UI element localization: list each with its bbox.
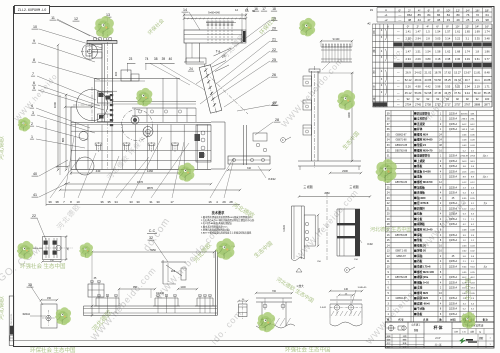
svg-text:8-Φ22: 8-Φ22 [268, 177, 276, 181]
svg-text:连接板: 连接板 [416, 191, 425, 195]
svg-text:24: 24 [189, 67, 193, 71]
svg-text:64: 64 [486, 13, 490, 17]
svg-text:41: 41 [33, 193, 37, 197]
svg-text:1.57: 1.57 [445, 30, 451, 34]
svg-text:38: 38 [437, 18, 441, 22]
svg-text:Q235-A: Q235-A [449, 176, 458, 179]
svg-text:33: 33 [129, 200, 133, 204]
svg-text:立柱焊合: 立柱焊合 [417, 117, 428, 121]
svg-text:400: 400 [114, 71, 118, 76]
svg-text:销轴: 销轴 [417, 254, 423, 258]
svg-text:25: 25 [272, 58, 276, 62]
svg-text:1.62: 1.62 [445, 49, 451, 53]
svg-text:Q235-A: Q235-A [449, 155, 458, 158]
svg-text:A: A [385, 8, 387, 12]
svg-text:98: 98 [486, 18, 490, 22]
svg-text:12°: 12° [465, 25, 469, 29]
svg-text:2745: 2745 [415, 102, 421, 106]
svg-text:Q235-A: Q235-A [449, 281, 458, 284]
svg-text:Q235-A: Q235-A [449, 123, 458, 126]
svg-text:55.45: 55.45 [484, 91, 491, 95]
svg-text:92: 92 [416, 97, 419, 101]
svg-text:河北德欧: 河北德欧 [0, 296, 5, 320]
svg-text:3.35: 3.35 [475, 36, 481, 40]
svg-text:三 视图: 三 视图 [349, 185, 358, 189]
svg-text:垫板: 垫板 [417, 238, 423, 242]
svg-text:—: — [397, 31, 400, 34]
svg-text:84: 84 [447, 13, 451, 17]
svg-text:Q235-A: Q235-A [449, 170, 458, 173]
svg-text:Q235-A: Q235-A [449, 192, 458, 195]
svg-text:3.38: 3.38 [445, 57, 451, 61]
svg-text:Q235-A: Q235-A [449, 218, 458, 221]
svg-text:24.1: 24.1 [475, 78, 481, 82]
svg-text:起: 起 [373, 70, 376, 74]
svg-text:3.77: 3.77 [484, 57, 490, 61]
svg-text:2.94: 2.94 [465, 84, 471, 88]
svg-text:ZLL2.6XP90M.LO: ZLL2.6XP90M.LO [18, 9, 47, 13]
svg-text:1200: 1200 [180, 286, 186, 289]
svg-text:GB5780-86: GB5780-86 [395, 181, 408, 184]
svg-text:56.13: 56.13 [474, 91, 481, 95]
svg-text:33: 33 [447, 18, 451, 22]
svg-text:1: 1 [31, 135, 33, 139]
svg-text:43.75: 43.75 [444, 91, 451, 95]
svg-text:Q235-A: Q235-A [449, 260, 458, 263]
svg-text:—: — [397, 92, 400, 95]
svg-text:16°: 16° [485, 25, 489, 29]
svg-text:23: 23 [129, 57, 133, 61]
svg-text:29: 29 [456, 18, 460, 22]
svg-text:24.62: 24.62 [415, 70, 422, 74]
svg-text:38: 38 [55, 200, 59, 204]
svg-text:3.49: 3.49 [465, 57, 471, 61]
svg-text:Q235-A: Q235-A [449, 239, 458, 242]
svg-text:27: 27 [273, 101, 277, 105]
svg-text:3.52: 3.52 [455, 84, 461, 88]
svg-text:—: — [397, 37, 400, 40]
svg-text:35.25: 35.25 [444, 78, 451, 82]
svg-text:GB93-87: GB93-87 [396, 255, 406, 258]
svg-text:1.74: 1.74 [465, 49, 471, 53]
svg-text:2757: 2757 [454, 102, 460, 106]
svg-text:22: 22 [272, 48, 276, 52]
svg-text:2.19: 2.19 [475, 84, 481, 88]
svg-text:3-M8×35: 3-M8×35 [358, 286, 367, 289]
svg-text:4: 4 [31, 104, 33, 108]
svg-text:92: 92 [446, 97, 449, 101]
svg-text:—: — [398, 18, 401, 22]
svg-text:39: 39 [162, 57, 166, 61]
svg-text:2060: 2060 [324, 192, 330, 195]
svg-text:30.7: 30.7 [465, 78, 471, 82]
svg-text:14: 14 [183, 8, 187, 12]
svg-text:16: 16 [254, 7, 258, 11]
svg-text:螺母 M20: 螺母 M20 [417, 291, 429, 295]
svg-text:螺栓 M24×80: 螺栓 M24×80 [417, 138, 433, 142]
svg-text:1460: 1460 [147, 169, 154, 173]
svg-text:2.09: 2.09 [415, 57, 421, 61]
svg-text:斜支撑焊合: 斜支撑焊合 [416, 111, 430, 115]
svg-text:升: 升 [373, 85, 376, 89]
svg-text:40: 40 [33, 172, 37, 176]
svg-text:3: 3 [32, 111, 34, 115]
svg-text:2°: 2° [417, 25, 420, 29]
svg-text:Q235-A: Q235-A [449, 128, 458, 131]
svg-text:8°: 8° [437, 8, 440, 12]
svg-text:1.71: 1.71 [484, 84, 490, 88]
svg-text:6°: 6° [428, 8, 431, 12]
svg-text:56.84: 56.84 [415, 91, 422, 95]
svg-text:支座: 支座 [416, 286, 423, 290]
svg-text:25: 25 [466, 18, 470, 22]
svg-text:GB862-87: GB862-87 [396, 297, 408, 300]
svg-text:拉板: 拉板 [417, 212, 423, 216]
svg-text:236.: 236. [470, 119, 475, 121]
svg-text:16°: 16° [475, 8, 479, 12]
svg-text:2: 2 [31, 122, 33, 126]
svg-text:ZL1.2.07.01: ZL1.2.07.01 [11, 313, 13, 325]
svg-text:21: 21 [476, 18, 480, 22]
svg-text:4: 4 [246, 7, 248, 11]
svg-text:52.98: 52.98 [424, 91, 431, 95]
svg-text:筋板: 筋板 [416, 164, 423, 168]
svg-text:2764: 2764 [470, 156, 476, 158]
svg-text:85: 85 [418, 13, 422, 17]
svg-text:Q235-A: Q235-A [449, 213, 458, 216]
svg-text:12: 12 [235, 8, 238, 12]
svg-text:11: 11 [51, 16, 55, 20]
svg-text:轴 Φ60: 轴 Φ60 [417, 196, 426, 200]
svg-text:1.58: 1.58 [435, 49, 441, 53]
svg-text:43.86: 43.86 [424, 78, 431, 82]
svg-text:—: — [397, 71, 400, 74]
svg-text:1.54: 1.54 [435, 30, 441, 34]
svg-text:28: 28 [229, 200, 233, 204]
svg-text:1.86: 1.86 [484, 49, 490, 53]
svg-text:钢板 δ=10: 钢板 δ=10 [417, 280, 429, 284]
svg-text:6°: 6° [436, 25, 439, 29]
svg-text:3.22: 3.22 [455, 36, 461, 40]
svg-text:7: 7 [32, 72, 34, 76]
svg-text:21: 21 [272, 38, 276, 42]
svg-text:Q235-A: Q235-A [449, 287, 458, 290]
svg-text:2.50: 2.50 [405, 36, 411, 40]
svg-text:5950: 5950 [150, 248, 156, 252]
svg-text:1.8: 1.8 [475, 49, 479, 53]
svg-text:1.5: 1.5 [426, 30, 430, 34]
svg-text:26: 26 [272, 73, 276, 77]
svg-text:3.36: 3.36 [455, 57, 461, 61]
svg-text:140: 140 [344, 288, 349, 291]
svg-text:1.41: 1.41 [405, 30, 411, 34]
svg-text:三 视图: 三 视图 [303, 185, 312, 189]
svg-text:92: 92 [407, 97, 410, 101]
svg-text:3.89: 3.89 [425, 57, 431, 61]
svg-text:—: — [397, 50, 400, 53]
svg-text:0°: 0° [398, 8, 401, 12]
svg-text:0°: 0° [407, 25, 410, 29]
svg-text:349.81: 349.81 [461, 113, 468, 115]
svg-text:Q235-A: Q235-A [449, 165, 458, 168]
svg-text:38: 38 [154, 57, 158, 61]
svg-text:8-Φ2: 8-Φ2 [367, 243, 373, 246]
svg-text:100: 100 [485, 97, 490, 101]
svg-text:17: 17 [170, 200, 174, 204]
svg-text:河北德欧: 河北德欧 [0, 136, 5, 160]
svg-text:5: 5 [33, 86, 35, 90]
svg-text:肋板: 肋板 [417, 312, 423, 316]
svg-text:盖板: 盖板 [417, 175, 423, 179]
svg-text:8°: 8° [446, 25, 449, 29]
svg-text:Q235-A: Q235-A [449, 160, 458, 163]
svg-text:螺栓 M12×40: 螺栓 M12×40 [417, 228, 433, 232]
svg-text:38: 38 [408, 18, 412, 22]
svg-text:2.8: 2.8 [426, 36, 430, 40]
svg-text:Q235-A: Q235-A [449, 313, 458, 316]
svg-text:螺母 M24: 螺母 M24 [417, 132, 429, 136]
svg-text:Q235-A: Q235-A [449, 202, 458, 205]
svg-text:1.61: 1.61 [455, 30, 461, 34]
svg-text:1.74: 1.74 [484, 30, 490, 34]
svg-text:34: 34 [114, 200, 118, 204]
svg-text:3.1: 3.1 [465, 36, 469, 40]
svg-text:10-Φ16: 10-Φ16 [156, 292, 165, 295]
svg-text:GB5015-88: GB5015-88 [395, 144, 408, 147]
svg-text:4.42: 4.42 [425, 84, 431, 88]
svg-text:10: 10 [33, 25, 37, 29]
svg-text:92: 92 [476, 97, 479, 101]
svg-text:40: 40 [169, 57, 173, 61]
svg-text:35: 35 [107, 200, 111, 204]
svg-text:螺栓 M20×70: 螺栓 M20×70 [417, 148, 433, 152]
svg-text:76: 76 [466, 13, 470, 17]
svg-text:环强社会 生态中国: 环强社会 生态中国 [20, 262, 66, 270]
svg-text:圆钢 Φ20: 圆钢 Φ20 [417, 296, 428, 300]
svg-text:142.: 142. [470, 129, 475, 131]
svg-text:880: 880 [61, 137, 65, 142]
svg-text:幅: 幅 [373, 49, 376, 53]
svg-text:Q235-A: Q235-A [449, 223, 458, 226]
svg-text:39: 39 [48, 200, 52, 204]
svg-text:92: 92 [456, 97, 459, 101]
svg-text:1970: 1970 [137, 180, 144, 184]
svg-text:17.62: 17.62 [444, 70, 451, 74]
svg-text:13.67: 13.67 [464, 70, 471, 74]
svg-text:重: 重 [373, 97, 376, 101]
svg-text:3.61: 3.61 [475, 57, 481, 61]
svg-text:Q235-A: Q235-A [449, 112, 458, 115]
svg-text:29: 29 [222, 200, 226, 204]
svg-text:48.04: 48.04 [415, 78, 422, 82]
svg-text:1.47: 1.47 [415, 30, 421, 34]
svg-text:Q235-A: Q235-A [449, 276, 458, 279]
svg-text:9×60=540: 9×60=540 [208, 11, 220, 15]
svg-text:3.55: 3.55 [445, 84, 451, 88]
svg-text:螺栓 M24×100: 螺栓 M24×100 [417, 270, 434, 274]
svg-text:12: 12 [74, 17, 78, 21]
svg-text:GB862-87: GB862-87 [396, 133, 408, 136]
svg-text:8.48: 8.48 [484, 70, 490, 74]
svg-text:84: 84 [427, 13, 431, 17]
svg-text:50.56: 50.56 [434, 78, 441, 82]
svg-text:螺栓 M16×50: 螺栓 M16×50 [417, 180, 433, 184]
svg-text:92: 92 [426, 97, 429, 101]
svg-text:4.98: 4.98 [415, 84, 421, 88]
svg-text:92: 92 [436, 97, 439, 101]
svg-text:底板 B=600: 底板 B=600 [416, 169, 431, 173]
svg-text:11.81: 11.81 [474, 70, 481, 74]
svg-text:加劲板: 加劲板 [416, 185, 425, 189]
svg-text:#2: #2 [367, 22, 371, 26]
svg-text:d12: d12 [171, 269, 176, 273]
svg-text:21.02: 21.02 [424, 70, 431, 74]
svg-text:440: 440 [96, 169, 101, 173]
svg-text:GB5783-88: GB5783-88 [395, 234, 408, 237]
svg-text:1.69: 1.69 [475, 30, 481, 34]
svg-text:2727: 2727 [435, 102, 441, 106]
svg-text:862: 862 [407, 13, 412, 17]
svg-text:3.05: 3.05 [435, 36, 441, 40]
svg-text:Q235-A: Q235-A [449, 265, 458, 268]
svg-text:15.27: 15.27 [454, 70, 461, 74]
svg-text:2.94: 2.94 [405, 57, 411, 61]
svg-text:30: 30 [156, 200, 160, 204]
svg-text:150: 150 [47, 297, 52, 300]
svg-text:142.3: 142.3 [462, 129, 468, 131]
svg-text:52.12: 52.12 [405, 78, 412, 82]
svg-text:12°: 12° [456, 8, 460, 12]
svg-text:2888: 2888 [474, 102, 480, 106]
svg-text:310: 310 [247, 167, 252, 170]
svg-text:kg: kg [479, 331, 481, 333]
svg-text:950: 950 [133, 286, 138, 289]
svg-text:2877: 2877 [484, 102, 490, 106]
svg-text:2°: 2° [408, 8, 411, 12]
svg-text:6: 6 [33, 81, 35, 85]
svg-text:18.78: 18.78 [434, 70, 441, 74]
svg-text:37.51: 37.51 [454, 91, 461, 95]
svg-text:4-Φ22: 4-Φ22 [283, 224, 286, 231]
svg-text:1.51: 1.51 [415, 49, 421, 53]
svg-text:4°: 4° [426, 25, 429, 29]
svg-text:—: — [397, 103, 400, 106]
svg-text:8: 8 [33, 58, 35, 62]
svg-text:2738: 2738 [425, 102, 431, 106]
svg-text:横隔板: 横隔板 [416, 222, 425, 226]
svg-text:Q235-A: Q235-A [449, 302, 458, 305]
svg-text:垫圈 24: 垫圈 24 [417, 143, 426, 147]
svg-text:垫圈 20: 垫圈 20 [417, 243, 426, 247]
svg-text:32: 32 [149, 236, 153, 240]
svg-text:3.18: 3.18 [435, 57, 441, 61]
svg-text:立板: 立板 [417, 217, 423, 221]
svg-text:10°: 10° [446, 8, 450, 12]
svg-text:2-Φ42: 2-Φ42 [320, 306, 327, 309]
svg-text:3870: 3870 [147, 186, 154, 190]
svg-text:套 Φ76×8: 套 Φ76×8 [417, 201, 429, 205]
svg-text:1.54: 1.54 [425, 49, 431, 53]
svg-text:1.68: 1.68 [455, 49, 461, 53]
svg-text:—: — [397, 58, 400, 61]
svg-text:2.94: 2.94 [415, 36, 421, 40]
svg-text:Φ20A2: Φ20A2 [23, 313, 31, 316]
svg-text:—: — [397, 79, 400, 82]
svg-text:Q235-A: Q235-A [449, 207, 458, 210]
svg-text:3.98: 3.98 [435, 84, 441, 88]
svg-text:3.14: 3.14 [445, 36, 451, 40]
svg-text:2764.87: 2764.87 [460, 156, 469, 158]
svg-text:节点板: 节点板 [417, 307, 425, 311]
svg-text:92: 92 [466, 97, 469, 101]
svg-text:31: 31 [149, 200, 153, 204]
svg-text:GB97.1-85: GB97.1-85 [395, 250, 407, 253]
svg-text:2767: 2767 [464, 102, 470, 106]
svg-text:10°: 10° [455, 25, 459, 29]
svg-text:GB5782-88: GB5782-88 [395, 276, 408, 279]
svg-text:20: 20 [272, 27, 276, 31]
svg-text:GB5782-88: GB5782-88 [395, 149, 408, 152]
svg-text:基础梁焊合: 基础梁焊合 [416, 154, 430, 158]
svg-text:变: 变 [373, 30, 376, 34]
svg-text:工艺: 工艺 [403, 346, 407, 349]
svg-text:9×100: 9×100 [333, 38, 340, 41]
svg-text:—: — [398, 13, 401, 17]
svg-text:杯体: 杯体 [416, 127, 423, 131]
svg-text:C: C [282, 138, 284, 142]
svg-text:—: — [397, 98, 400, 101]
svg-text:1000: 1000 [53, 101, 57, 108]
svg-text:47: 47 [427, 18, 431, 22]
svg-text:9.44: 9.44 [465, 91, 471, 95]
svg-text:30: 30 [136, 200, 140, 204]
svg-text:28: 28 [275, 118, 279, 122]
svg-text:74: 74 [145, 57, 149, 61]
svg-text:—: — [397, 85, 400, 88]
svg-text:18°: 18° [485, 8, 489, 12]
svg-text:连接梁: 连接梁 [416, 122, 425, 126]
svg-text:2754: 2754 [405, 102, 411, 106]
svg-text:Q235-A: Q235-A [449, 308, 458, 311]
svg-text:1.47: 1.47 [405, 49, 411, 53]
svg-text:9: 9 [33, 39, 35, 43]
svg-text:2=4°: 2=4° [435, 336, 440, 340]
svg-text:14°: 14° [466, 8, 470, 12]
svg-text:4°: 4° [418, 8, 421, 12]
svg-text:1 放大: 1 放大 [296, 284, 304, 288]
svg-text:1:25: 1:25 [462, 331, 466, 333]
svg-text:17: 17 [262, 7, 266, 11]
svg-text:挡板: 挡板 [416, 259, 423, 263]
svg-text:33.72: 33.72 [454, 78, 461, 82]
svg-text:1.65: 1.65 [465, 30, 471, 34]
svg-text:349.: 349. [470, 113, 475, 115]
svg-text:5.26: 5.26 [405, 84, 411, 88]
svg-text:弹垫 20: 弹垫 20 [417, 249, 426, 253]
svg-text:3400: 3400 [347, 112, 351, 118]
svg-text:36: 36 [100, 200, 104, 204]
svg-text:72: 72 [476, 13, 480, 17]
svg-text:环保社会 生态中国: 环保社会 生态中国 [30, 346, 76, 353]
svg-text:2717: 2717 [445, 102, 451, 106]
svg-text:撑板: 撑板 [416, 233, 423, 237]
svg-text:C-C: C-C [149, 229, 156, 233]
svg-text:Q235-A: Q235-A [449, 234, 458, 237]
svg-text:19.88: 19.88 [484, 78, 491, 82]
svg-text:700: 700 [272, 290, 277, 293]
svg-text:10: 10 [76, 200, 80, 204]
svg-text:C: C [346, 268, 348, 272]
